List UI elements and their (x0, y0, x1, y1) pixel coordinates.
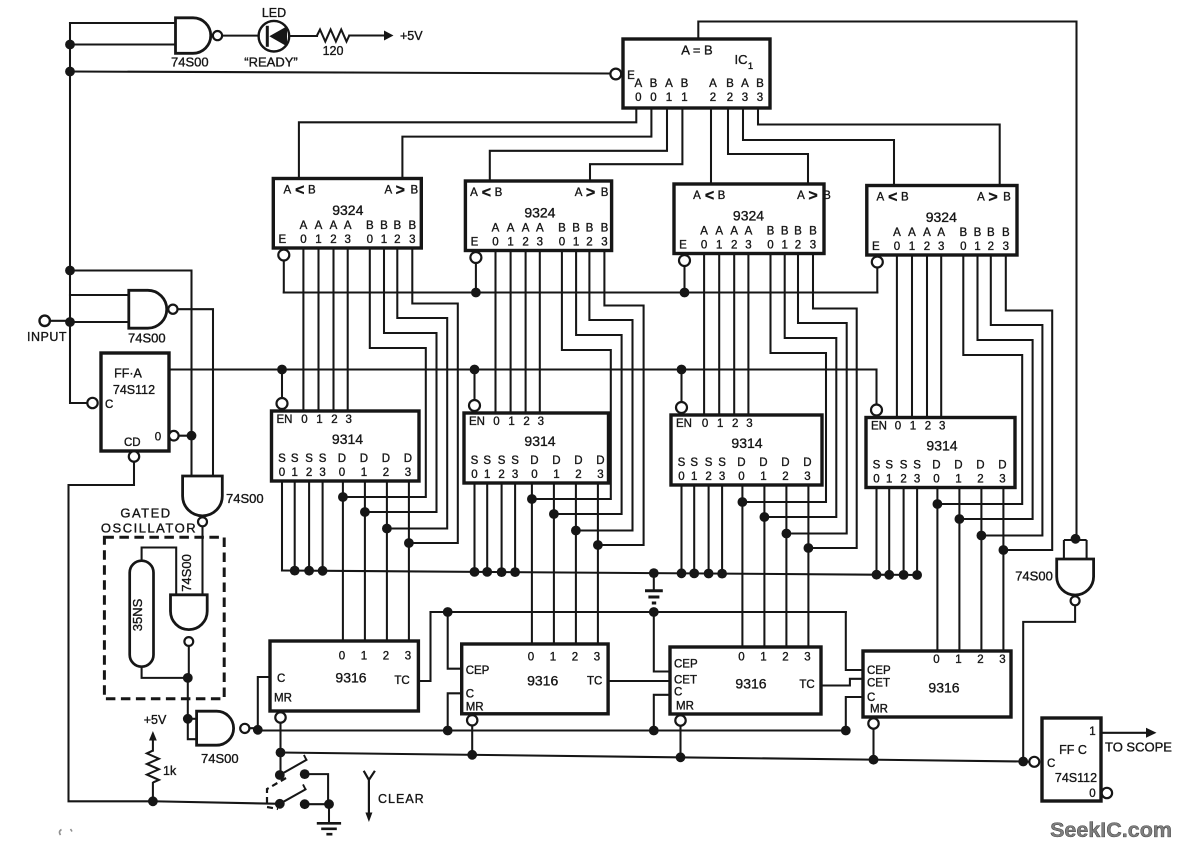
svg-text:1k: 1k (163, 764, 177, 778)
svg-text:A: A (507, 223, 515, 235)
svg-text:3: 3 (405, 651, 411, 663)
svg-text:2: 2 (383, 467, 389, 479)
svg-text:D: D (803, 457, 811, 469)
svg-text:0: 0 (767, 240, 773, 252)
svg-text:S: S (291, 453, 299, 465)
svg-text:A: A (330, 220, 338, 232)
svg-text:9316: 9316 (928, 680, 959, 696)
svg-text:2: 2 (498, 469, 504, 481)
svg-text:2: 2 (731, 240, 737, 252)
svg-text:S: S (471, 455, 479, 467)
svg-text:>: > (396, 182, 405, 199)
svg-text:B: B (718, 190, 726, 202)
svg-text:1: 1 (291, 467, 297, 479)
svg-text:0: 0 (339, 467, 345, 479)
svg-text:1: 1 (760, 652, 766, 664)
svg-text:A: A (492, 223, 500, 235)
svg-text:3: 3 (999, 654, 1005, 666)
svg-text:B: B (1003, 192, 1011, 204)
svg-text:1: 1 (1089, 726, 1095, 738)
svg-text:2: 2 (900, 474, 906, 486)
svg-text:1: 1 (553, 469, 559, 481)
svg-text:2: 2 (575, 469, 581, 481)
svg-text:2: 2 (977, 654, 983, 666)
svg-text:0: 0 (492, 237, 498, 249)
svg-text:9316: 9316 (527, 673, 558, 689)
svg-text:35NS: 35NS (130, 598, 145, 631)
svg-text:E: E (278, 234, 286, 246)
svg-text:0: 0 (895, 421, 901, 433)
svg-text:1: 1 (315, 234, 321, 246)
svg-text:B: B (495, 187, 503, 199)
svg-text:0: 0 (155, 432, 161, 444)
svg-text:CEP: CEP (466, 665, 490, 677)
svg-text:B: B (558, 223, 566, 235)
svg-text:1: 1 (955, 474, 961, 486)
svg-text:0: 0 (493, 416, 499, 428)
svg-text:D: D (998, 460, 1006, 472)
svg-text:>: > (586, 185, 595, 202)
svg-text:2: 2 (331, 414, 337, 426)
svg-text:LED: LED (262, 6, 286, 20)
svg-text:1: 1 (681, 92, 687, 104)
svg-text:D: D (382, 453, 390, 465)
svg-text:A: A (730, 226, 738, 238)
svg-text:1: 1 (573, 237, 579, 249)
svg-text:0: 0 (738, 471, 744, 483)
svg-text:S: S (718, 457, 726, 469)
svg-text:A: A (344, 220, 352, 232)
svg-text:D: D (338, 453, 346, 465)
svg-text:S: S (678, 457, 686, 469)
svg-text:3: 3 (597, 469, 603, 481)
svg-text:CET: CET (674, 675, 697, 687)
svg-text:B: B (308, 185, 316, 197)
svg-text:1: 1 (909, 241, 915, 253)
svg-text:B: B (586, 223, 594, 235)
svg-text:0: 0 (678, 471, 684, 483)
svg-text:B: B (823, 190, 831, 202)
svg-text:+5V: +5V (144, 713, 167, 727)
svg-text:1: 1 (361, 467, 367, 479)
svg-text:D: D (360, 453, 368, 465)
svg-text:3: 3 (594, 652, 600, 664)
svg-text:0: 0 (528, 652, 534, 664)
svg-text:2: 2 (383, 651, 389, 663)
svg-text:2: 2 (782, 471, 788, 483)
svg-text:B: B (366, 220, 374, 232)
svg-text:S: S (900, 460, 908, 472)
svg-text:2: 2 (572, 652, 578, 664)
svg-text:MR: MR (466, 702, 484, 714)
svg-text:TC: TC (799, 679, 814, 691)
svg-text:FF·A: FF·A (114, 367, 142, 381)
svg-text:EN: EN (277, 414, 293, 426)
svg-text:A: A (384, 185, 392, 197)
svg-text:B: B (393, 220, 401, 232)
svg-text:0: 0 (738, 652, 744, 664)
svg-text:2: 2 (330, 234, 336, 246)
svg-text:INPUT: INPUT (27, 330, 67, 344)
svg-text:B: B (1002, 227, 1010, 239)
svg-text:1: 1 (955, 654, 961, 666)
svg-text:OSCILLATOR: OSCILLATOR (101, 521, 197, 536)
svg-text:A: A (634, 78, 642, 90)
svg-text:A: A (693, 190, 701, 202)
svg-text:EN: EN (871, 421, 887, 433)
svg-text:A: A (575, 187, 583, 199)
svg-text:A: A (745, 226, 753, 238)
svg-text:3: 3 (601, 237, 607, 249)
svg-text:9316: 9316 (335, 670, 366, 686)
svg-text:A: A (893, 227, 901, 239)
svg-text:EN: EN (469, 416, 485, 428)
svg-text:1: 1 (760, 471, 766, 483)
svg-text:9314: 9314 (524, 433, 555, 449)
svg-text:2: 2 (727, 92, 733, 104)
svg-text:2: 2 (977, 474, 983, 486)
svg-text:D: D (781, 457, 789, 469)
svg-text:IC: IC (735, 52, 748, 67)
svg-text:0: 0 (300, 234, 306, 246)
svg-text:S: S (319, 453, 327, 465)
svg-text:0: 0 (279, 467, 285, 479)
svg-text:E: E (872, 241, 880, 253)
svg-text:74S00: 74S00 (171, 55, 209, 70)
svg-text:D: D (552, 455, 560, 467)
svg-text:9324: 9324 (733, 208, 764, 224)
svg-text:A: A (700, 226, 708, 238)
svg-text:3: 3 (938, 241, 944, 253)
svg-text:B: B (380, 220, 388, 232)
svg-text:CD: CD (124, 437, 141, 449)
svg-text:0: 0 (701, 240, 707, 252)
svg-text:3: 3 (745, 240, 751, 252)
svg-text:B: B (767, 226, 775, 238)
svg-text:0: 0 (650, 92, 656, 104)
svg-text:74S112: 74S112 (113, 383, 155, 397)
svg-text:0: 0 (873, 474, 879, 486)
svg-text:MR: MR (870, 704, 888, 716)
svg-text:D: D (574, 455, 582, 467)
svg-text:0: 0 (471, 469, 477, 481)
svg-text:A: A (470, 187, 478, 199)
svg-text:3: 3 (757, 92, 763, 104)
svg-text:A: A (300, 220, 308, 232)
svg-text:A: A (283, 185, 291, 197)
svg-text:D: D (596, 455, 604, 467)
svg-text:0: 0 (339, 651, 345, 663)
svg-text:2: 2 (732, 418, 738, 430)
svg-text:A: A (876, 192, 884, 204)
svg-text:A: A (709, 78, 717, 90)
svg-text:C: C (105, 399, 113, 411)
svg-text:1: 1 (550, 652, 556, 664)
svg-text:0: 0 (367, 234, 373, 246)
svg-text:B: B (987, 227, 995, 239)
svg-text:CLEAR: CLEAR (378, 792, 425, 806)
svg-text:74S00: 74S00 (1015, 569, 1053, 584)
svg-text:C: C (277, 673, 285, 685)
svg-text:0: 0 (559, 237, 565, 249)
svg-text:<: < (705, 188, 714, 205)
svg-text:B: B (572, 223, 580, 235)
svg-text:1: 1 (717, 418, 723, 430)
svg-text:2: 2 (782, 652, 788, 664)
svg-text:0: 0 (894, 241, 900, 253)
svg-text:2: 2 (306, 467, 312, 479)
svg-text:CET: CET (867, 678, 890, 690)
svg-text:2: 2 (523, 416, 529, 428)
svg-text:SeekIC.com: SeekIC.com (1050, 818, 1172, 842)
svg-text:B: B (959, 227, 967, 239)
svg-text:CEP: CEP (674, 659, 698, 671)
svg-text:B: B (756, 78, 764, 90)
svg-text:0: 0 (635, 92, 641, 104)
svg-text:2: 2 (705, 471, 711, 483)
svg-text:9314: 9314 (926, 438, 957, 454)
svg-text:9316: 9316 (735, 676, 766, 692)
svg-text:1: 1 (910, 421, 916, 433)
svg-text:GATED: GATED (120, 506, 171, 521)
svg-text:9324: 9324 (926, 209, 957, 225)
svg-text:A: A (741, 78, 749, 90)
svg-text:3: 3 (537, 237, 543, 249)
svg-text:74S00: 74S00 (201, 751, 239, 766)
svg-text:1: 1 (781, 240, 787, 252)
svg-text:E: E (679, 240, 687, 252)
svg-text:A: A (797, 190, 805, 202)
svg-text:B: B (794, 226, 802, 238)
svg-text:9324: 9324 (524, 205, 555, 221)
svg-text:2: 2 (925, 421, 931, 433)
svg-text:74S112: 74S112 (1055, 771, 1097, 785)
svg-text:D: D (976, 460, 984, 472)
svg-text:D: D (759, 457, 767, 469)
svg-text:D: D (530, 455, 538, 467)
svg-text:“READY”: “READY” (244, 55, 297, 70)
svg-text:3: 3 (719, 471, 725, 483)
svg-text:2: 2 (988, 241, 994, 253)
svg-text:2: 2 (394, 234, 400, 246)
svg-text:B: B (726, 78, 734, 90)
svg-text:3: 3 (319, 467, 325, 479)
svg-text:3: 3 (405, 467, 411, 479)
svg-text:<: < (295, 182, 304, 199)
svg-text:>: > (808, 188, 817, 205)
svg-text:+5V: +5V (400, 29, 423, 43)
svg-text:B: B (601, 187, 609, 199)
svg-text:S: S (885, 460, 893, 472)
svg-text:TC: TC (394, 675, 409, 687)
svg-text:2: 2 (710, 92, 716, 104)
svg-text:D: D (932, 460, 940, 472)
svg-text:B: B (809, 226, 817, 238)
svg-text:74S00: 74S00 (226, 491, 264, 506)
svg-text:0: 0 (933, 654, 939, 666)
svg-text:9314: 9314 (731, 435, 762, 451)
svg-text:1: 1 (974, 241, 980, 253)
svg-text:0: 0 (531, 469, 537, 481)
svg-text:9314: 9314 (332, 431, 363, 447)
svg-text:D: D (954, 460, 962, 472)
svg-text:1: 1 (666, 92, 672, 104)
svg-text:1: 1 (316, 414, 322, 426)
svg-text:3: 3 (409, 234, 415, 246)
svg-text:A: A (715, 226, 723, 238)
svg-text:1: 1 (748, 61, 753, 72)
svg-text:S: S (278, 453, 286, 465)
svg-text:3: 3 (742, 92, 748, 104)
svg-text:3: 3 (1003, 241, 1009, 253)
svg-text:B: B (601, 223, 609, 235)
svg-text:3: 3 (345, 414, 351, 426)
svg-text:B: B (681, 78, 689, 90)
svg-text:S: S (690, 457, 698, 469)
svg-text:A: A (315, 220, 323, 232)
svg-text:C: C (867, 692, 875, 704)
svg-text:B: B (781, 226, 789, 238)
svg-text:0: 0 (960, 241, 966, 253)
svg-text:A: A (536, 223, 544, 235)
svg-text:B: B (901, 192, 909, 204)
svg-text:A: A (665, 78, 673, 90)
svg-text:A: A (937, 227, 945, 239)
svg-text:2: 2 (586, 237, 592, 249)
svg-text:3: 3 (512, 469, 518, 481)
svg-text:D: D (737, 457, 745, 469)
svg-text:1: 1 (508, 416, 514, 428)
svg-text:3: 3 (914, 474, 920, 486)
svg-text:3: 3 (804, 471, 810, 483)
svg-text:2: 2 (522, 237, 528, 249)
svg-text:B: B (974, 227, 982, 239)
svg-text:1: 1 (691, 471, 697, 483)
svg-text:EN: EN (676, 418, 692, 430)
svg-text:S: S (511, 455, 519, 467)
svg-text:1: 1 (507, 237, 513, 249)
svg-text:0: 0 (1089, 788, 1095, 800)
svg-text:1: 1 (361, 651, 367, 663)
svg-text:>: > (988, 189, 997, 206)
svg-text:3: 3 (999, 474, 1005, 486)
svg-text:S: S (705, 457, 713, 469)
svg-text:74S00: 74S00 (128, 331, 166, 346)
svg-text:<: < (888, 189, 897, 206)
svg-text:3: 3 (804, 652, 810, 664)
svg-text:FF C: FF C (1059, 743, 1087, 757)
svg-text:E: E (471, 237, 479, 249)
svg-text:A: A (908, 227, 916, 239)
svg-text:B: B (650, 78, 658, 90)
svg-text:0: 0 (301, 414, 307, 426)
svg-text:2: 2 (924, 241, 930, 253)
svg-text:D: D (404, 453, 412, 465)
svg-text:2: 2 (795, 240, 801, 252)
svg-text:1: 1 (886, 474, 892, 486)
svg-text:S: S (873, 460, 881, 472)
svg-text:C: C (466, 689, 474, 701)
svg-text:TC: TC (587, 676, 602, 688)
svg-text:A: A (977, 192, 985, 204)
svg-text:0: 0 (702, 418, 708, 430)
svg-text:A = B: A = B (681, 43, 712, 58)
svg-text:1: 1 (484, 469, 490, 481)
svg-text:A: A (522, 223, 530, 235)
svg-text:S: S (483, 455, 491, 467)
svg-text:TO SCOPE: TO SCOPE (1105, 740, 1172, 755)
svg-text:1: 1 (381, 234, 387, 246)
svg-text:3: 3 (746, 418, 752, 430)
svg-text:B: B (408, 220, 416, 232)
svg-text:0: 0 (933, 474, 939, 486)
svg-text:S: S (305, 453, 313, 465)
svg-text:1: 1 (716, 240, 722, 252)
svg-text:S: S (913, 460, 921, 472)
svg-text:CEP: CEP (867, 665, 891, 677)
svg-text:MR: MR (676, 701, 694, 713)
svg-text:74S00: 74S00 (179, 554, 194, 592)
svg-text:MR: MR (274, 693, 292, 705)
svg-text:C: C (1047, 758, 1055, 770)
svg-text:C: C (674, 687, 682, 699)
svg-text:A: A (923, 227, 931, 239)
svg-text:3: 3 (939, 421, 945, 433)
svg-text:3: 3 (538, 416, 544, 428)
svg-text:3: 3 (810, 240, 816, 252)
svg-text:S: S (498, 455, 506, 467)
svg-text:<: < (482, 185, 491, 202)
svg-text:3: 3 (344, 234, 350, 246)
svg-text:9324: 9324 (332, 202, 363, 218)
svg-text:B: B (410, 185, 418, 197)
svg-text:120: 120 (323, 44, 344, 58)
